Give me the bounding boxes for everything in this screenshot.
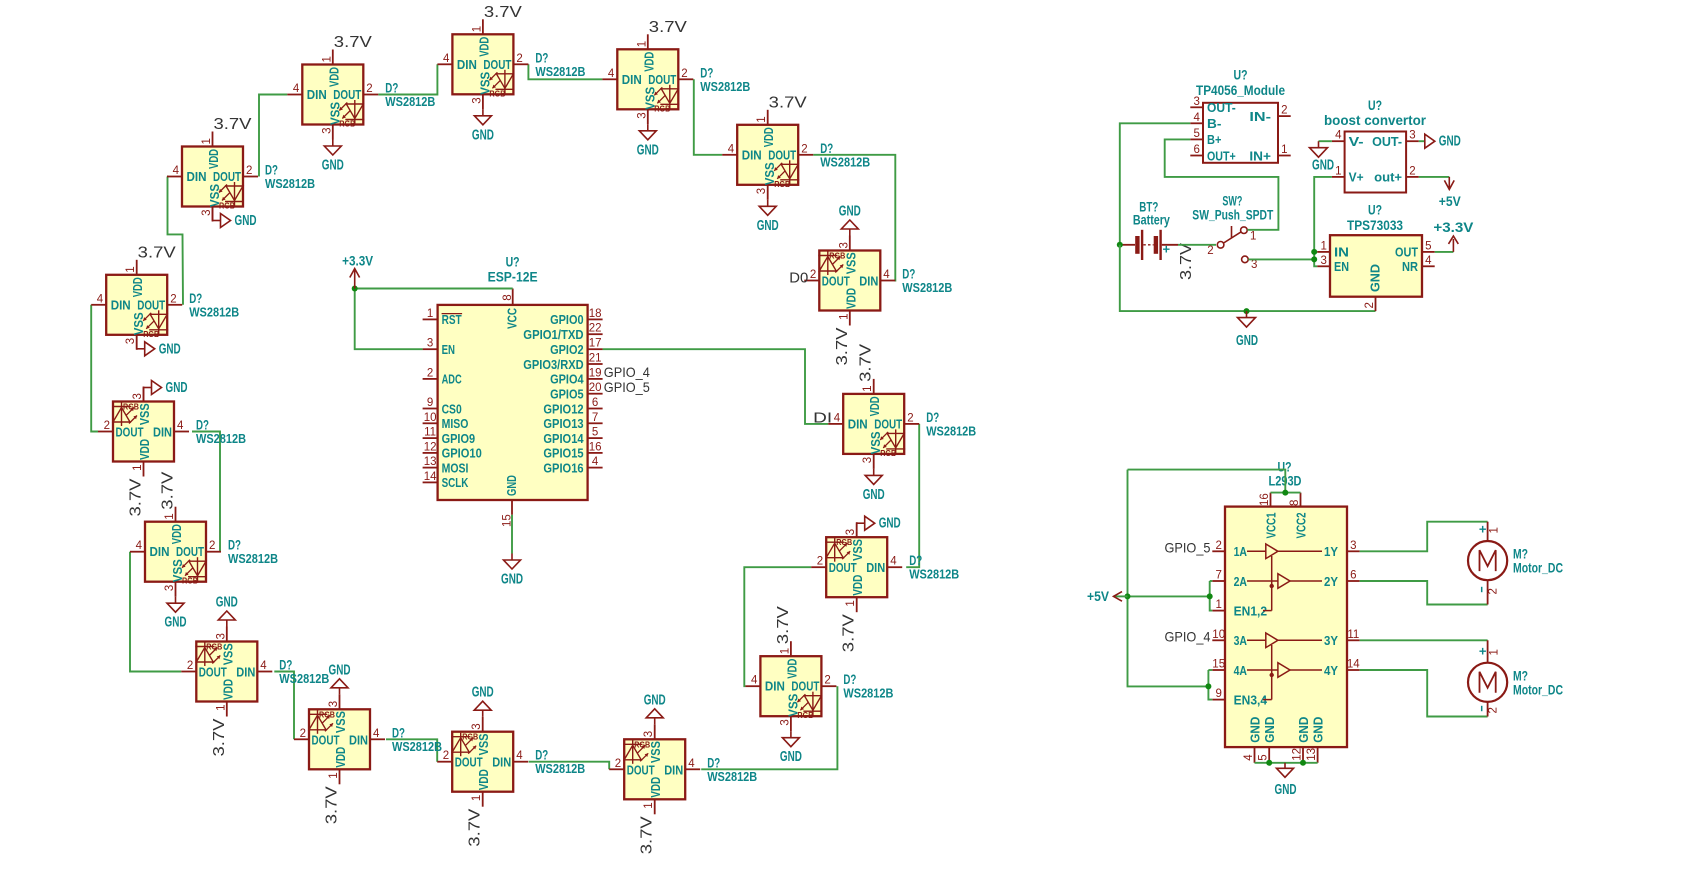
svg-text:+3.3V: +3.3V bbox=[1433, 220, 1473, 235]
svg-text:DOUT: DOUT bbox=[648, 72, 676, 87]
svg-text:2: 2 bbox=[1207, 245, 1213, 257]
svg-text:GPIO_4: GPIO_4 bbox=[604, 364, 650, 380]
svg-text:1: 1 bbox=[636, 41, 648, 47]
svg-text:3.7V: 3.7V bbox=[138, 244, 176, 261]
svg-text:VDD: VDD bbox=[206, 149, 221, 169]
svg-text:2: 2 bbox=[817, 556, 823, 568]
regulator U? TPS73033 bbox=[1317, 235, 1434, 311]
svg-text:DOUT: DOUT bbox=[829, 560, 857, 575]
svg-text:WS2812B: WS2812B bbox=[196, 431, 246, 446]
svg-text:VDD: VDD bbox=[850, 575, 865, 596]
LED module D? #5 (WS2812B) bbox=[722, 110, 813, 200]
svg-text:DIN: DIN bbox=[111, 297, 131, 312]
wire M8.DOUT to M9.DIN bbox=[744, 567, 811, 686]
svg-text:MISO: MISO bbox=[442, 416, 469, 431]
svg-text:1Y: 1Y bbox=[1324, 544, 1338, 559]
svg-text:WS2812B: WS2812B bbox=[902, 280, 952, 295]
svg-text:+: + bbox=[1163, 242, 1171, 257]
LED module D? #15 (WS2812B) bbox=[98, 387, 189, 477]
svg-text:DIN: DIN bbox=[236, 665, 255, 680]
svg-text:M?: M? bbox=[1513, 547, 1528, 562]
svg-text:GND: GND bbox=[322, 158, 344, 174]
svg-text:RGB: RGB bbox=[836, 537, 852, 547]
svg-text:4: 4 bbox=[173, 165, 180, 177]
ground symbol (ESP) bbox=[501, 554, 523, 588]
svg-text:WS2812B: WS2812B bbox=[926, 423, 976, 438]
ground symbol (module #13) bbox=[216, 595, 238, 627]
svg-text:2: 2 bbox=[366, 83, 372, 95]
LED module D? #7 (WS2812B) bbox=[828, 379, 919, 469]
ground symbol (module #16) bbox=[137, 335, 181, 358]
svg-text:D0: D0 bbox=[789, 270, 808, 287]
LED module D? #8 (WS2812B) bbox=[811, 522, 902, 612]
svg-text:GND: GND bbox=[165, 615, 187, 631]
svg-text:20: 20 bbox=[589, 382, 602, 394]
svg-text:+: + bbox=[1479, 643, 1487, 658]
svg-text:VSS: VSS bbox=[850, 539, 865, 561]
svg-text:2: 2 bbox=[300, 728, 306, 740]
svg-text:2: 2 bbox=[1281, 105, 1287, 117]
svg-text:1: 1 bbox=[321, 56, 333, 62]
label D? / WS2812B value for module #14 bbox=[228, 538, 278, 567]
svg-text:2: 2 bbox=[810, 269, 816, 281]
svg-text:RGB: RGB bbox=[634, 739, 650, 749]
svg-text:VDD: VDD bbox=[641, 52, 656, 72]
svg-text:3: 3 bbox=[1350, 540, 1356, 552]
svg-text:5: 5 bbox=[1425, 240, 1431, 252]
svg-text:RGB: RGB bbox=[654, 103, 670, 113]
svg-text:3.7V: 3.7V bbox=[1178, 243, 1195, 280]
motor1 pins bbox=[1479, 521, 1500, 604]
svg-text:GPIO12: GPIO12 bbox=[543, 401, 583, 416]
svg-text:1: 1 bbox=[471, 26, 483, 32]
svg-text:VSS: VSS bbox=[648, 741, 663, 763]
svg-text:1: 1 bbox=[1281, 144, 1287, 156]
svg-text:U?: U? bbox=[1234, 68, 1248, 83]
svg-text:VDD: VDD bbox=[843, 288, 858, 309]
wire M2.DOUT to M3.DIN bbox=[378, 64, 437, 94]
svg-text:1: 1 bbox=[1488, 527, 1500, 533]
svg-text:12: 12 bbox=[1292, 748, 1304, 761]
svg-text:VDD: VDD bbox=[220, 679, 235, 700]
svg-text:18: 18 bbox=[589, 308, 602, 320]
svg-text:4: 4 bbox=[373, 728, 380, 740]
svg-text:GPIO5: GPIO5 bbox=[550, 387, 584, 402]
svg-text:RGB: RGB bbox=[462, 732, 478, 742]
wire M13.DOUT to M14.DIN bbox=[130, 552, 181, 672]
svg-text:U?: U? bbox=[506, 255, 520, 270]
svg-text:2: 2 bbox=[427, 367, 433, 379]
svg-text:DIN: DIN bbox=[859, 274, 878, 289]
ground symbol (module #9) bbox=[780, 731, 802, 765]
svg-text:RST: RST bbox=[442, 312, 462, 327]
wire 2Y to motor1 - bbox=[1360, 581, 1488, 605]
wire to TPS IN bbox=[1314, 251, 1317, 253]
junction at VCC pins bbox=[1282, 490, 1288, 496]
svg-text:2: 2 bbox=[615, 758, 621, 770]
svg-text:4: 4 bbox=[1425, 255, 1432, 267]
svg-text:+5V: +5V bbox=[1439, 194, 1461, 209]
svg-text:4: 4 bbox=[834, 412, 841, 424]
svg-text:SCLK: SCLK bbox=[442, 475, 469, 490]
label D? / WS2812B value for module #9 bbox=[843, 672, 893, 701]
junction +5V tap bbox=[1125, 593, 1131, 599]
svg-text:3: 3 bbox=[471, 97, 483, 103]
svg-text:VDD: VDD bbox=[333, 747, 348, 768]
wire to 4A/EN3,4 bbox=[1208, 670, 1212, 700]
svg-text:3.7V: 3.7V bbox=[324, 786, 341, 824]
svg-text:7: 7 bbox=[1215, 570, 1221, 582]
wire +3.3V to EN pin 3 bbox=[355, 289, 423, 350]
svg-text:+5V: +5V bbox=[1087, 589, 1109, 604]
svg-text:2: 2 bbox=[824, 675, 830, 687]
svg-text:15: 15 bbox=[1212, 659, 1225, 671]
ground symbol (module #3) bbox=[472, 109, 494, 143]
svg-text:3A: 3A bbox=[1234, 633, 1248, 648]
wire M12.DOUT to M13.DIN bbox=[274, 672, 294, 740]
svg-text:M?: M? bbox=[1513, 668, 1528, 683]
label D? / WS2812B value for module #8 bbox=[909, 553, 959, 582]
svg-text:IN: IN bbox=[1334, 245, 1349, 260]
svg-text:2: 2 bbox=[246, 165, 252, 177]
svg-text:1: 1 bbox=[643, 802, 655, 808]
svg-text:RGB: RGB bbox=[123, 402, 139, 412]
svg-text:VSS: VSS bbox=[137, 403, 152, 425]
svg-text:GND: GND bbox=[472, 127, 494, 143]
GND rail bottom bbox=[1120, 245, 1376, 311]
svg-text:GPIO10: GPIO10 bbox=[442, 446, 482, 461]
wire M5.DOUT to M6.DIN bbox=[813, 155, 896, 281]
label D? / WS2812B value for module #11 bbox=[535, 748, 585, 777]
svg-text:3: 3 bbox=[1409, 130, 1415, 142]
svg-text:VDD: VDD bbox=[761, 127, 776, 147]
switch SW? SW_Push_SPDT bbox=[1178, 226, 1257, 271]
svg-text:1: 1 bbox=[328, 772, 340, 778]
svg-text:4: 4 bbox=[751, 675, 758, 687]
svg-text:3: 3 bbox=[321, 128, 333, 134]
label D? / WS2812B value for module #6 bbox=[902, 267, 952, 296]
label D? / WS2812B value for module #10 bbox=[707, 755, 757, 784]
svg-text:DOUT: DOUT bbox=[822, 274, 850, 289]
svg-text:3.7V: 3.7V bbox=[834, 327, 851, 365]
wire M10.DOUT to M11.DIN bbox=[529, 762, 610, 770]
svg-text:5: 5 bbox=[592, 427, 598, 439]
svg-text:1: 1 bbox=[132, 465, 144, 471]
svg-text:3.7V: 3.7V bbox=[649, 19, 687, 36]
label SW? / SW_Push_SPDT bbox=[1192, 194, 1274, 223]
svg-text:DOUT: DOUT bbox=[791, 679, 819, 694]
svg-text:DOUT: DOUT bbox=[455, 755, 483, 770]
motor M? #2 (Motor_DC) bbox=[1468, 663, 1507, 702]
LED module D? #10 (WS2812B) bbox=[609, 724, 700, 814]
svg-text:DI: DI bbox=[813, 409, 832, 426]
svg-text:DIN: DIN bbox=[622, 72, 642, 87]
svg-text:V+: V+ bbox=[1349, 170, 1364, 185]
wire TPS OUT to +3.3V bbox=[1435, 251, 1454, 253]
wire boost V- to GND bbox=[1319, 140, 1332, 142]
svg-text:RGB: RGB bbox=[797, 710, 813, 720]
svg-text:B-: B- bbox=[1207, 116, 1221, 131]
svg-text:EN: EN bbox=[1334, 259, 1349, 274]
svg-text:GND: GND bbox=[504, 475, 519, 496]
svg-text:2: 2 bbox=[1364, 302, 1376, 308]
svg-text:3: 3 bbox=[643, 731, 655, 737]
wire boost out+ to +5V bbox=[1419, 176, 1450, 178]
motor2 pins bbox=[1479, 640, 1500, 716]
svg-text:GPIO1/TXD: GPIO1/TXD bbox=[523, 327, 584, 342]
svg-text:VCC2: VCC2 bbox=[1293, 513, 1308, 539]
+5V left vertical rail bbox=[1128, 470, 1209, 687]
svg-text:3: 3 bbox=[1320, 255, 1326, 267]
svg-text:1: 1 bbox=[1488, 649, 1500, 655]
wire M14.DOUT to M15.DIN bbox=[192, 432, 220, 552]
wire 3Y to motor2 + bbox=[1360, 639, 1488, 641]
svg-text:3.7V: 3.7V bbox=[775, 606, 792, 644]
svg-text:7: 7 bbox=[592, 412, 598, 424]
svg-text:3: 3 bbox=[132, 393, 144, 399]
svg-text:1: 1 bbox=[838, 314, 850, 320]
svg-text:4: 4 bbox=[97, 293, 104, 305]
LED module D? #2 (WS2812B) bbox=[287, 50, 378, 140]
svg-text:DOUT: DOUT bbox=[874, 416, 902, 431]
svg-text:Battery: Battery bbox=[1133, 213, 1170, 228]
LED module D? #1 (WS2812B) bbox=[167, 132, 258, 222]
svg-text:DIN: DIN bbox=[150, 544, 170, 559]
label D? / WS2812B value for module #12 bbox=[392, 725, 442, 754]
junction 4A/EN3 bbox=[1205, 683, 1211, 689]
svg-text:RGB: RGB bbox=[774, 179, 790, 189]
svg-text:VDD: VDD bbox=[476, 37, 491, 57]
svg-text:GND: GND bbox=[1312, 158, 1334, 174]
svg-text:1: 1 bbox=[215, 705, 227, 711]
svg-text:GND: GND bbox=[863, 487, 885, 503]
svg-text:2: 2 bbox=[801, 143, 807, 155]
svg-text:U?: U? bbox=[1368, 203, 1382, 218]
svg-text:WS2812B: WS2812B bbox=[392, 739, 442, 754]
svg-text:SW_Push_SPDT: SW_Push_SPDT bbox=[1192, 207, 1274, 222]
svg-text:4: 4 bbox=[883, 269, 890, 281]
svg-text:GND: GND bbox=[1275, 782, 1297, 798]
svg-text:DIN: DIN bbox=[866, 560, 885, 575]
svg-text:OUT-: OUT- bbox=[1207, 100, 1236, 115]
label U? / TP4056_Module bbox=[1196, 68, 1285, 99]
svg-text:OUT+: OUT+ bbox=[1207, 148, 1236, 163]
svg-text:1: 1 bbox=[1215, 599, 1221, 611]
svg-text:1: 1 bbox=[1335, 165, 1341, 177]
wire B+ to switch pin 1 bbox=[1165, 139, 1279, 229]
svg-text:4: 4 bbox=[890, 556, 897, 568]
svg-text:RGB: RGB bbox=[489, 88, 505, 98]
svg-text:2: 2 bbox=[1215, 540, 1221, 552]
svg-text:4: 4 bbox=[1335, 130, 1342, 142]
LED module D? #12 (WS2812B) bbox=[294, 694, 385, 784]
svg-text:GND: GND bbox=[757, 218, 779, 234]
svg-text:GPIO_5: GPIO_5 bbox=[1165, 540, 1211, 556]
wire M16.DOUT to M1.DIN bbox=[167, 177, 183, 305]
svg-text:WS2812B: WS2812B bbox=[535, 64, 585, 79]
svg-text:2A: 2A bbox=[1234, 574, 1248, 589]
wire M9.DOUT to M10.DIN bbox=[701, 686, 837, 769]
svg-text:1: 1 bbox=[164, 513, 176, 519]
svg-text:5: 5 bbox=[1258, 754, 1270, 760]
motor M? #1 (Motor_DC) bbox=[1468, 541, 1507, 580]
svg-text:3: 3 bbox=[215, 633, 227, 639]
svg-text:3: 3 bbox=[862, 457, 874, 463]
label D? / WS2812B value for module #4 bbox=[700, 65, 750, 94]
wire battery+ rail up to B- bbox=[1120, 123, 1191, 245]
svg-text:CS0: CS0 bbox=[442, 401, 462, 416]
ground symbol (module #11) bbox=[472, 685, 494, 717]
svg-text:GPIO15: GPIO15 bbox=[543, 446, 584, 461]
svg-text:DIN: DIN bbox=[457, 57, 477, 72]
svg-text:14: 14 bbox=[1347, 659, 1360, 671]
svg-text:GND: GND bbox=[1310, 716, 1325, 742]
svg-text:GPIO3/RXD: GPIO3/RXD bbox=[523, 357, 584, 372]
wire GPIO2 to M7.DIN (DI) bbox=[603, 349, 829, 424]
svg-text:2: 2 bbox=[1487, 707, 1499, 713]
svg-text:TP4056_Module: TP4056_Module bbox=[1196, 83, 1285, 98]
svg-text:VSS: VSS bbox=[220, 643, 235, 665]
svg-text:DOUT: DOUT bbox=[312, 732, 340, 747]
svg-text:GND: GND bbox=[166, 380, 188, 396]
wire switch pin 3 to regulator bbox=[1248, 258, 1314, 260]
ground symbol (module #2) bbox=[322, 140, 344, 174]
LED module D? #3 (WS2812B) bbox=[437, 19, 528, 109]
svg-text:9: 9 bbox=[427, 397, 433, 409]
svg-text:GND: GND bbox=[1247, 716, 1262, 742]
svg-text:16: 16 bbox=[1259, 493, 1271, 506]
junctions on GND wire bbox=[1266, 760, 1272, 766]
svg-text:3: 3 bbox=[427, 338, 433, 350]
svg-text:VCC: VCC bbox=[505, 308, 520, 329]
label U? / TPS73033 bbox=[1347, 203, 1403, 233]
svg-text:4: 4 bbox=[608, 68, 615, 80]
power symbol +3.3V bbox=[342, 254, 373, 289]
svg-text:3: 3 bbox=[779, 719, 791, 725]
ground symbol (module #6) bbox=[839, 204, 861, 236]
wire M15.DOUT to M16.DIN bbox=[91, 305, 98, 432]
svg-text:VSS: VSS bbox=[476, 733, 491, 755]
svg-text:2: 2 bbox=[1487, 588, 1499, 594]
svg-text:OUT-: OUT- bbox=[1372, 134, 1402, 149]
svg-text:DIN: DIN bbox=[349, 732, 368, 747]
svg-text:3: 3 bbox=[838, 242, 850, 248]
label BT? / Battery bbox=[1133, 200, 1170, 228]
svg-text:3.7V: 3.7V bbox=[769, 94, 807, 111]
svg-text:11: 11 bbox=[424, 427, 436, 439]
svg-text:6: 6 bbox=[592, 397, 598, 409]
svg-text:MOSI: MOSI bbox=[442, 460, 469, 475]
ground symbol (boost V-) bbox=[1310, 141, 1335, 173]
svg-text:1A: 1A bbox=[1234, 544, 1248, 559]
svg-text:GPIO2: GPIO2 bbox=[550, 342, 584, 357]
svg-text:GPIO4: GPIO4 bbox=[550, 372, 584, 387]
svg-text:DIN: DIN bbox=[742, 147, 762, 162]
wire 1Y to motor1 + bbox=[1360, 522, 1488, 552]
wire M11.DOUT to M12.DIN bbox=[386, 739, 437, 761]
svg-text:1: 1 bbox=[862, 385, 874, 391]
svg-text:RGB: RGB bbox=[319, 709, 335, 719]
svg-text:V-: V- bbox=[1349, 134, 1364, 149]
svg-text:RGB: RGB bbox=[182, 576, 198, 586]
svg-text:GND: GND bbox=[637, 142, 659, 158]
svg-text:4: 4 bbox=[1243, 754, 1255, 761]
svg-text:RGB: RGB bbox=[206, 642, 222, 652]
svg-text:VDD: VDD bbox=[130, 277, 145, 297]
junction at battery left bbox=[1117, 242, 1123, 248]
svg-text:3: 3 bbox=[201, 210, 213, 216]
svg-text:3: 3 bbox=[164, 585, 176, 591]
wire +5V tap to 2A/EN1,2 bbox=[1128, 595, 1210, 597]
svg-text:8: 8 bbox=[502, 294, 514, 300]
ground symbol (module #5) bbox=[757, 200, 779, 234]
label D? / WS2812B value for module #16 bbox=[189, 291, 239, 320]
svg-text:WS2812B: WS2812B bbox=[909, 567, 959, 582]
svg-text:WS2812B: WS2812B bbox=[279, 671, 329, 686]
svg-text:DIN: DIN bbox=[765, 679, 785, 694]
svg-text:17: 17 bbox=[589, 338, 602, 350]
svg-text:1: 1 bbox=[1320, 240, 1326, 252]
power symbol +5V (left arrow) bbox=[1087, 589, 1128, 604]
svg-text:3.7V: 3.7V bbox=[467, 808, 484, 846]
svg-text:3.7V: 3.7V bbox=[211, 718, 228, 756]
svg-text:IN-: IN- bbox=[1249, 109, 1271, 124]
svg-text:1: 1 bbox=[125, 266, 137, 272]
svg-text:8: 8 bbox=[1289, 500, 1301, 506]
junction on GND rail bbox=[1244, 308, 1250, 314]
svg-text:DOUT: DOUT bbox=[176, 544, 204, 559]
svg-text:GND: GND bbox=[501, 572, 523, 588]
ground symbol (power section) bbox=[1236, 311, 1258, 349]
svg-text:WS2812B: WS2812B bbox=[707, 769, 757, 784]
svg-text:1: 1 bbox=[1250, 231, 1256, 243]
svg-text:DOUT: DOUT bbox=[768, 147, 796, 162]
svg-text:6: 6 bbox=[1193, 144, 1199, 156]
ground symbol (module #8) bbox=[857, 516, 901, 538]
svg-text:GND: GND bbox=[839, 204, 861, 220]
svg-text:3: 3 bbox=[328, 701, 340, 707]
svg-text:WS2812B: WS2812B bbox=[843, 686, 893, 701]
svg-text:DOUT: DOUT bbox=[137, 297, 165, 312]
svg-text:VSS: VSS bbox=[333, 711, 348, 733]
svg-text:3.7V: 3.7V bbox=[484, 4, 522, 21]
svg-text:SW?: SW? bbox=[1222, 194, 1242, 209]
svg-text:3: 3 bbox=[125, 338, 137, 344]
svg-text:RGB: RGB bbox=[219, 201, 235, 211]
label D? / WS2812B value for module #1 bbox=[265, 163, 315, 192]
svg-text:GND: GND bbox=[780, 749, 802, 765]
svg-text:DIN: DIN bbox=[492, 755, 511, 770]
ground symbol (module #10) bbox=[644, 692, 666, 724]
wire M3.DOUT to M4.DIN bbox=[528, 64, 602, 79]
svg-text:14: 14 bbox=[424, 471, 437, 483]
svg-text:4A: 4A bbox=[1234, 663, 1248, 678]
svg-text:1: 1 bbox=[845, 600, 857, 606]
svg-text:1: 1 bbox=[427, 308, 433, 320]
svg-text:GND: GND bbox=[1236, 333, 1258, 349]
svg-text:boost convertor: boost convertor bbox=[1324, 113, 1427, 128]
svg-text:4: 4 bbox=[592, 456, 599, 468]
svg-text:DIN: DIN bbox=[664, 762, 683, 777]
svg-text:GPIO14: GPIO14 bbox=[543, 431, 584, 446]
svg-text:GND: GND bbox=[329, 662, 351, 678]
charger module U? TP4056_Module bbox=[1190, 96, 1290, 164]
svg-text:U?: U? bbox=[1368, 98, 1382, 113]
svg-text:RGB: RGB bbox=[143, 329, 159, 339]
wire M7.DOUT to M8.DIN bbox=[906, 424, 919, 567]
svg-text:5: 5 bbox=[1193, 128, 1199, 140]
svg-text:12: 12 bbox=[424, 441, 437, 453]
